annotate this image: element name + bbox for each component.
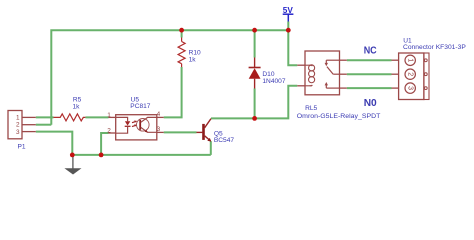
wire diode top bbox=[254, 30, 256, 57]
svg-text:1N4007: 1N4007 bbox=[262, 78, 285, 85]
wire U5 pin3 to Q5 base bbox=[164, 131, 197, 133]
resistor R10 bbox=[178, 38, 185, 68]
connector U1 bbox=[392, 53, 430, 100]
transistor Q5 bbox=[197, 119, 212, 142]
wire diode bottom bbox=[254, 89, 256, 119]
wire P1 pin1 to R5 bbox=[36, 116, 54, 118]
wire bottom rail bbox=[72, 154, 211, 156]
svg-text:NC: NC bbox=[364, 46, 378, 57]
svg-text:2: 2 bbox=[107, 128, 111, 135]
junction dot diode bottom bbox=[252, 116, 257, 121]
svg-text:N0: N0 bbox=[364, 98, 377, 109]
wire relay NC to U1 pin1 bbox=[347, 59, 392, 61]
svg-text:3: 3 bbox=[407, 86, 414, 90]
svg-text:3: 3 bbox=[157, 126, 161, 133]
wire R5 to U5 pin1 bbox=[85, 116, 108, 118]
wire Q5 collector rail bbox=[211, 86, 297, 119]
wire U5 pin2 drop bbox=[101, 133, 108, 155]
wire relay COM to U1 pin2 bbox=[347, 73, 392, 75]
svg-text:R5: R5 bbox=[73, 96, 82, 103]
wire relay NO to U1 pin3 bbox=[347, 87, 392, 89]
svg-text:Connector KF301-3P: Connector KF301-3P bbox=[403, 44, 466, 51]
junction dot R10 top bbox=[179, 28, 184, 33]
ground bbox=[64, 155, 81, 175]
svg-text:1: 1 bbox=[107, 112, 111, 119]
wire R10 top bbox=[181, 30, 183, 37]
svg-text:1: 1 bbox=[16, 115, 20, 122]
svg-text:Omron-G5LE-Relay_SPDT: Omron-G5LE-Relay_SPDT bbox=[297, 113, 381, 120]
svg-text:PC817: PC817 bbox=[130, 103, 150, 110]
svg-text:4: 4 bbox=[157, 111, 161, 118]
wire top rail bbox=[51, 30, 288, 125]
resistor R5 bbox=[54, 114, 86, 121]
connector P1 bbox=[8, 111, 36, 139]
power 5V bbox=[283, 6, 294, 21]
svg-text:1k: 1k bbox=[189, 57, 197, 64]
svg-text:1: 1 bbox=[407, 58, 414, 62]
junction dot ground bbox=[70, 153, 75, 158]
diode D10 bbox=[249, 58, 261, 89]
optocoupler U5 bbox=[107, 111, 163, 140]
junction dot U5 pin2 bbox=[99, 153, 104, 158]
svg-text:3: 3 bbox=[16, 129, 20, 136]
junction dot 5V bbox=[286, 28, 291, 33]
svg-text:R10: R10 bbox=[189, 50, 201, 57]
svg-text:1k: 1k bbox=[73, 104, 81, 111]
junction dot diode top bbox=[252, 28, 257, 33]
wire U5 pin4 to R10 bbox=[164, 67, 182, 117]
svg-text:BC547: BC547 bbox=[214, 137, 234, 144]
svg-text:2: 2 bbox=[407, 72, 414, 76]
wire P1 pin2 to vertical bbox=[36, 124, 52, 126]
svg-text:2: 2 bbox=[16, 122, 20, 129]
svg-text:P1: P1 bbox=[18, 143, 26, 150]
wire 5V to relay coil top bbox=[288, 22, 297, 66]
relay RL5 bbox=[297, 51, 347, 95]
wire P1 pin3 to ground junction bbox=[36, 132, 73, 155]
wire Q5 emitter down bbox=[210, 141, 212, 155]
svg-text:RL5: RL5 bbox=[305, 105, 317, 112]
